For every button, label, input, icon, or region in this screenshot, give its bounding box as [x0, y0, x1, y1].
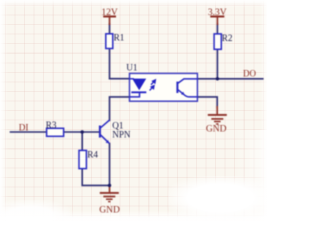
svg-text:R1: R1	[114, 32, 125, 42]
svg-text:GND: GND	[206, 124, 227, 134]
svg-text:3.3V: 3.3V	[208, 8, 227, 18]
svg-text:R2: R2	[222, 33, 233, 43]
svg-text:DI: DI	[19, 123, 29, 133]
svg-text:GND: GND	[99, 205, 120, 215]
svg-text:R4: R4	[87, 150, 98, 160]
svg-text:R3: R3	[46, 120, 57, 130]
svg-text:NPN: NPN	[112, 129, 131, 139]
svg-text:U1: U1	[126, 62, 138, 72]
svg-text:DO: DO	[243, 68, 256, 78]
svg-text:12V: 12V	[101, 8, 118, 18]
